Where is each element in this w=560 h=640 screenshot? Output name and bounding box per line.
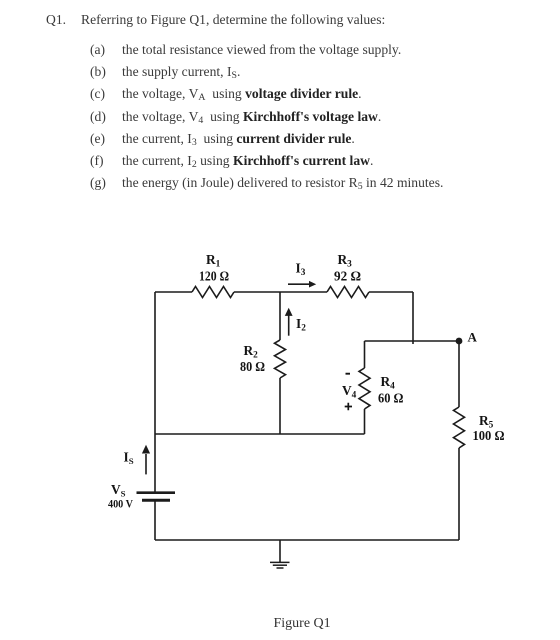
wire: R5 branch lower	[458, 448, 460, 540]
svg-text:120 Ω: 120 Ω	[199, 269, 229, 284]
item f	[90, 154, 104, 168]
wire: top-left segment before R1	[155, 291, 192, 293]
svg-text:R3: R3	[338, 252, 353, 269]
svg-text:92 Ω: 92 Ω	[334, 269, 361, 284]
svg-text:80 Ω: 80 Ω	[240, 359, 265, 374]
wire: R4 branch lower	[364, 409, 366, 434]
wire: R1 to junction to R3	[234, 291, 327, 293]
wire: middle horizontal to node A	[365, 340, 460, 342]
item e	[90, 132, 105, 146]
wire: left side lower (battery to bottom)	[154, 500, 156, 540]
item d	[90, 110, 106, 124]
svg-text:400 V: 400 V	[108, 497, 133, 511]
resistor R5	[454, 407, 465, 448]
svg-text:100 Ω: 100 Ω	[473, 428, 505, 443]
resistor R3	[327, 287, 369, 298]
svg-text:R4: R4	[381, 374, 396, 391]
wire: inner bottom horizontal	[155, 433, 365, 435]
ground	[270, 540, 290, 568]
wire: R4 branch upper	[364, 341, 366, 368]
current arrow I3	[288, 281, 316, 288]
wire: R3 to top-right corner	[369, 291, 413, 293]
item c	[90, 87, 105, 101]
item g	[90, 176, 106, 190]
svg-text:V4: V4	[342, 383, 357, 400]
question heading	[46, 13, 66, 27]
resistor R1	[192, 287, 234, 298]
battery Vs short plate	[142, 499, 170, 502]
wire: left side upper (top wire to battery)	[154, 292, 156, 492]
wire: right side down from top	[412, 292, 414, 344]
item b	[90, 65, 106, 79]
resistor R2	[275, 340, 286, 378]
current arrow I2	[285, 308, 293, 336]
svg-text:A: A	[468, 330, 478, 345]
svg-text:R1: R1	[206, 252, 221, 269]
svg-text:R2: R2	[244, 343, 259, 360]
current arrow Is	[142, 445, 150, 475]
wire: R2 branch lower	[279, 378, 281, 434]
wire: R5 branch upper	[458, 341, 460, 407]
resistor R4	[359, 368, 370, 409]
svg-text:I3: I3	[296, 261, 306, 278]
svg-text:I2: I2	[296, 316, 306, 333]
svg-text:IS: IS	[124, 450, 134, 467]
svg-text:60 Ω: 60 Ω	[378, 391, 404, 406]
node A	[456, 338, 463, 345]
label plus V4	[345, 403, 352, 410]
battery Vs long plate	[137, 491, 176, 494]
wire: bottom horizontal	[155, 539, 459, 541]
label minus V4	[346, 373, 351, 375]
wire: R2 branch upper	[279, 292, 281, 340]
item a	[90, 43, 105, 57]
figure caption	[274, 617, 331, 631]
